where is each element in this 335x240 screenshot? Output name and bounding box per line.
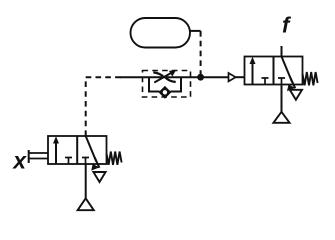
valve f supply wire — [281, 85, 283, 112]
svg-text:f: f — [282, 12, 292, 37]
valve f pilot triangle — [229, 73, 236, 81]
wire pilot line solid tail — [120, 76, 143, 78]
valve x exhaust triangle — [93, 172, 105, 182]
throttle adjust arrow — [154, 73, 171, 83]
check valve bypass wire — [149, 77, 181, 91]
valve f exhaust triangle — [290, 90, 302, 100]
valve x rest-position diagonal with arrow — [86, 136, 97, 162]
valve f left-square flow arrow — [252, 61, 254, 85]
valve f supply source triangle — [273, 112, 289, 123]
svg-text:x: x — [11, 148, 27, 174]
wire reservoir stub — [190, 30, 201, 32]
valve x body — [48, 136, 107, 164]
wire through flow control valve — [143, 76, 191, 78]
valve f return spring — [303, 72, 318, 85]
valve f pilot wire — [236, 76, 245, 78]
valve x supply wire — [85, 164, 87, 198]
valve x right-square blocked port T — [82, 158, 89, 165]
valve f body — [245, 57, 303, 85]
throttle upper arc — [153, 72, 164, 77]
valve x left-square blocked port T — [65, 158, 72, 165]
check valve — [160, 87, 171, 98]
valve f rest-position diagonal with arrow — [282, 57, 293, 83]
air reservoir — [131, 18, 191, 48]
valve x left-square flow arrow — [55, 140, 57, 164]
throttle lower arc — [165, 77, 176, 82]
wire reservoir pilot line (dashed) — [200, 31, 202, 77]
flow control valve enclosure (dashed box) — [143, 71, 191, 98]
valve f top port wire — [281, 46, 283, 57]
wire main line flow valve to valve f — [191, 76, 229, 78]
wire pilot line from valve x to flow valve (dashed) — [86, 77, 121, 136]
valve x push button actuator — [29, 153, 48, 159]
valve x return spring — [107, 152, 122, 165]
valve f left-square blocked port T — [262, 78, 269, 85]
valve x supply source triangle — [78, 198, 94, 210]
valve f right-square blocked port T — [278, 78, 285, 85]
node junction dot — [197, 74, 204, 81]
